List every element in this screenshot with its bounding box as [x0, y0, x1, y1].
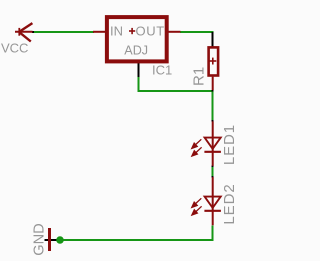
svg-text:LED1: LED1 — [221, 124, 238, 165]
svg-text:IN: IN — [110, 24, 123, 39]
svg-text:OUT: OUT — [136, 24, 165, 39]
svg-text:GND: GND — [32, 223, 48, 255]
svg-text:VCC: VCC — [1, 41, 28, 56]
svg-text:ADJ: ADJ — [124, 44, 148, 58]
svg-text:LED2: LED2 — [221, 183, 238, 224]
svg-text:IC1: IC1 — [152, 62, 172, 77]
svg-text:R1: R1 — [190, 67, 207, 86]
